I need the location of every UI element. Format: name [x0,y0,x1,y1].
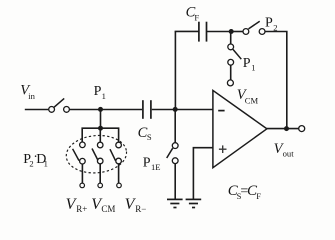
node D output junction dot [284,126,289,131]
label P1E [143,155,161,171]
svg-text:1: 1 [102,91,106,101]
svg-text:P: P [243,56,251,71]
label CS [138,125,152,142]
wire node A down to DAC bar [100,110,102,129]
svg-text:P: P [265,15,273,30]
label VR+ [66,196,88,214]
svg-text:1: 1 [251,63,255,73]
wire DAC top bar [82,128,118,142]
node B junction dot (summing node) [173,107,178,112]
switch P1v (summing node reset to VCM) [228,44,242,65]
wire switch P1v to VCM terminal [230,65,232,80]
terminal VCM2 (open circle) [98,183,103,188]
svg-text:1E: 1E [151,162,161,172]
label VCM (op-amp) [237,87,259,105]
ground GND1 [167,199,183,207]
op-amp U1 minus pin [218,110,224,112]
node A junction dot [98,107,103,112]
switch S1 (input sampling switch) [49,98,70,112]
svg-text:F: F [194,13,199,23]
terminal VR- (open circle) [117,183,122,188]
switch SW3 (to VR-) [110,142,121,164]
switch P1E (summing node ground switch) [167,143,178,164]
label VR- [125,196,147,214]
wire top left to capacitor CF [175,30,199,32]
node C junction dot [229,29,234,34]
op-amp U1 plus pin [219,145,227,153]
wire node C to switch P2 [231,31,243,33]
label VCM (bottom) [91,196,115,214]
switch P2 (feedback reset switch) [243,21,265,34]
wire node B up (feedback left riser) [174,31,176,109]
svg-text:1: 1 [44,158,48,168]
label P1 (vertical switch) [243,56,256,73]
svg-text:R−: R− [135,204,146,214]
wire op-amp plus input to ground [193,148,213,200]
wire middle drop to switch SW2 [99,128,101,142]
svg-text:P: P [94,84,102,99]
label P2 [265,15,277,32]
label CF [186,4,200,22]
wire SW1 to terminal VR+ [81,164,83,183]
wire SW2 to terminal VCM [99,164,101,183]
capacitor CF [199,22,207,42]
label Vout [274,141,295,158]
wire node A to capacitor CS [101,109,143,111]
dashed ellipse P2·D1 group [65,133,128,175]
wire switch S1 to node A [69,109,100,111]
wire op-amp output to terminal [267,128,299,130]
svg-text:out: out [283,149,295,159]
svg-text:F: F [256,191,261,201]
svg-text:P: P [143,155,151,170]
wire node B down to switch P1E [174,110,176,143]
wire SW3 to terminal VR- [118,164,120,183]
switch SW1 (to VR+) [73,142,86,164]
label Vin [20,83,35,102]
svg-text:CM: CM [245,95,259,105]
switch SW2 (to VCM) [92,142,103,164]
wire Vin to switch S1 [25,109,49,111]
wire capacitor CF to node C [207,31,232,33]
terminal Vout (open circle) [299,126,305,132]
svg-text:R+: R+ [76,204,87,214]
wire switch P1E to ground [174,164,176,200]
node E bar junction dot [98,126,103,131]
svg-text:in: in [28,91,35,101]
terminal VR+ (open circle) [80,183,85,188]
wire switch P2 to right corner [265,32,287,129]
label P1 (node A phase) [94,84,106,101]
ground GND2 [186,199,202,207]
label CS=CF equation [228,183,261,201]
wire node B to op-amp inverting input [175,109,213,111]
wire capacitor CS to node B [152,109,175,111]
svg-text:S: S [147,132,152,142]
capacitor CS [143,100,151,119]
terminal VCM (open circle) [227,80,233,86]
label P2·D1 [23,150,48,168]
svg-text:CM: CM [101,204,115,214]
wire node C down to switch P1v [230,32,232,45]
op-amp U1 [213,90,267,167]
